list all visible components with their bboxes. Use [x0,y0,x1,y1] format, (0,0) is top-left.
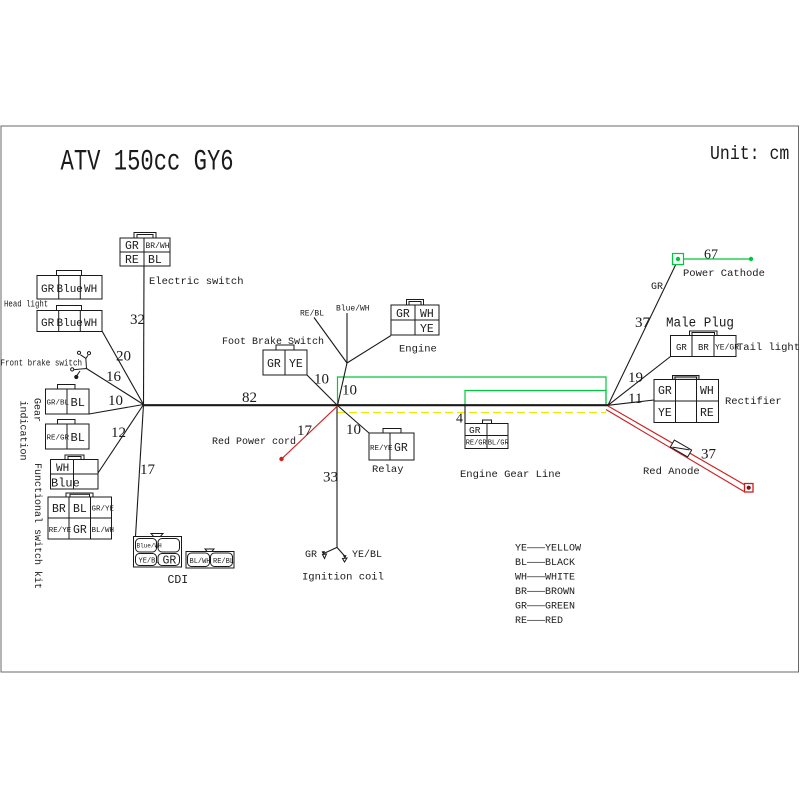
svg-text:GR: GR [676,343,687,353]
svg-text:Male Plug: Male Plug [666,315,734,331]
svg-text:BL: BL [148,254,162,267]
svg-text:GR: GR [73,524,87,537]
svg-text:GR: GR [41,284,55,296]
connector rectifier [654,376,719,423]
svg-text:11: 11 [628,391,642,407]
svg-text:RE/YE: RE/YE [49,527,72,535]
svg-text:BL———BLACK: BL———BLACK [515,558,575,569]
svg-text:Relay: Relay [372,464,404,476]
svg-text:GR: GR [396,308,410,321]
yellow dashed wire [337,412,606,414]
wire functional switch kit 12 [98,405,144,474]
wire engine gear line 4 [464,406,466,424]
svg-text:82: 82 [242,390,257,406]
ignition coil tip left [322,551,326,555]
svg-text:GR: GR [305,550,317,561]
wire male plug 19 [608,357,671,406]
svg-text:GR: GR [658,385,672,398]
svg-text:RE/GR: RE/GR [47,435,70,443]
ignition coil tip right [343,555,347,559]
svg-text:33: 33 [323,470,338,486]
svg-text:RE———RED: RE———RED [515,616,563,627]
connector CDI block 1 [134,534,182,568]
svg-text:YE———YELLOW: YE———YELLOW [515,544,581,555]
ignition coil fork [324,547,337,553]
svg-text:32: 32 [130,312,145,328]
svg-text:37: 37 [701,447,717,463]
svg-text:GR: GR [651,282,663,293]
svg-text:Blue: Blue [57,284,83,296]
svg-text:16: 16 [106,369,122,385]
legend wire colors [515,544,581,628]
wire engine junction 10 [338,363,348,406]
svg-text:WH: WH [84,284,97,296]
connector functional switch kit main [48,493,112,539]
svg-text:BL/WH: BL/WH [190,558,211,566]
svg-text:WH: WH [700,385,714,398]
svg-text:YE/BL: YE/BL [352,549,382,561]
svg-text:CDI: CDI [168,574,189,587]
wire gear indication 10 [89,405,144,415]
wire red anode 37 (double line) [608,406,745,485]
svg-text:Gear: Gear [31,398,42,422]
red anode terminal [745,484,754,493]
connector functional switch WH/Blue [51,455,99,489]
svg-text:YE/GR: YE/GR [715,344,739,353]
svg-text:12: 12 [111,425,126,441]
connector gear indication 2 [46,420,90,450]
wire red power cord 17 [282,406,338,459]
wire CDI 17 [136,405,144,537]
svg-text:Engine: Engine [399,344,437,356]
svg-text:GR: GR [163,555,177,568]
connector head light 2 [37,306,102,332]
connector head light 1 [37,271,102,300]
wire RE/BL branch [314,318,347,364]
svg-text:RE/GR: RE/GR [466,440,488,448]
svg-text:YE/BL: YE/BL [139,558,160,566]
svg-text:Ignition coil: Ignition coil [302,572,384,584]
svg-text:Tail light: Tail light [737,342,800,354]
svg-text:BL/WH: BL/WH [92,527,115,535]
connector foot brake switch [263,345,307,375]
svg-text:BR: BR [698,343,709,353]
svg-text:10: 10 [108,393,123,409]
svg-text:Engine Gear Line: Engine Gear Line [460,469,561,481]
wire engine branch [347,336,391,364]
front brake switch symbol [71,351,91,378]
svg-text:37: 37 [635,315,651,331]
connector engine gear line [465,420,508,449]
svg-text:WH: WH [84,318,97,330]
svg-text:RE/BL: RE/BL [300,310,324,319]
green harness rectangle outer [338,377,607,406]
svg-text:WH: WH [420,308,434,321]
power cathode terminal [673,254,754,265]
connector CDI block 2 [186,549,234,568]
svg-text:17: 17 [297,423,313,439]
svg-text:Front brake switch: Front brake switch [1,358,83,369]
svg-text:BR/WH: BR/WH [146,242,170,251]
svg-text:17: 17 [140,462,156,478]
svg-text:Blue/WH: Blue/WH [137,543,163,550]
red anode connector symbol [670,440,691,457]
svg-text:YE: YE [289,358,303,371]
svg-text:4: 4 [456,412,463,427]
svg-text:10: 10 [342,383,357,399]
svg-text:10: 10 [314,372,329,388]
svg-text:BL: BL [71,431,85,445]
svg-text:Red Anode: Red Anode [643,466,700,478]
wire main harness 82 [144,404,609,406]
svg-text:GR: GR [394,442,408,455]
connector male plug [671,331,737,357]
svg-text:Power Cathode: Power Cathode [683,268,765,280]
svg-text:RE: RE [700,407,714,420]
svg-text:RE/BL: RE/BL [213,558,234,566]
wire head light 20 [102,331,144,405]
svg-text:GR/BL: GR/BL [47,400,70,408]
connector relay [369,429,414,461]
svg-text:Electric switch: Electric switch [149,276,244,288]
svg-text:GR/YE: GR/YE [92,506,115,514]
svg-text:YE: YE [420,323,434,336]
svg-text:BL: BL [71,396,85,410]
wire power cathode 37 GR [608,263,677,405]
svg-text:Foot Brake Switch: Foot Brake Switch [222,336,324,348]
svg-text:WH: WH [56,463,69,475]
svg-text:GR: GR [267,358,281,371]
svg-text:RE/YE: RE/YE [370,445,393,453]
svg-text:20: 20 [116,349,131,365]
svg-text:Blue/WH: Blue/WH [336,305,370,314]
wire ignition coil 33 [336,406,338,547]
svg-text:indication: indication [17,401,29,461]
svg-text:BR: BR [52,503,66,516]
connector engine [391,300,439,336]
wire rectifier 11 [608,400,654,405]
svg-text:GR———GREEN: GR———GREEN [515,602,575,613]
svg-text:BL: BL [73,503,87,516]
connector gear indication 1 [46,385,90,415]
svg-text:BR———BROWN: BR———BROWN [515,587,575,598]
svg-text:YE: YE [658,407,672,420]
svg-text:67: 67 [704,248,718,263]
wire relay 10 [338,406,370,434]
wire foot brake switch 10 [307,375,338,406]
svg-text:BL/GR: BL/GR [488,440,510,448]
svg-text:WH———WHITE: WH———WHITE [515,573,575,584]
svg-text:Unit: cm: Unit: cm [710,144,789,165]
svg-text:Blue: Blue [51,477,80,491]
svg-text:GR: GR [125,240,139,253]
svg-text:19: 19 [628,370,643,386]
wire electric switch 32 [143,266,146,405]
svg-text:10: 10 [346,422,361,438]
svg-text:RE: RE [125,254,139,267]
svg-text:Head light: Head light [4,299,48,310]
wire front brake switch 16 [87,369,144,405]
svg-text:Red Power cord: Red Power cord [212,436,296,448]
wire Blue/WH branch [346,313,348,363]
svg-text:GR: GR [41,318,55,330]
svg-text:ATV 150cc GY6: ATV 150cc GY6 [61,144,234,178]
connector electric switch [120,233,170,267]
svg-text:Rectifier: Rectifier [725,396,782,408]
svg-text:Blue: Blue [57,318,83,330]
green harness rectangle inner [465,391,606,406]
svg-text:Functional switch kit: Functional switch kit [31,463,43,589]
svg-text:GR: GR [469,425,481,436]
